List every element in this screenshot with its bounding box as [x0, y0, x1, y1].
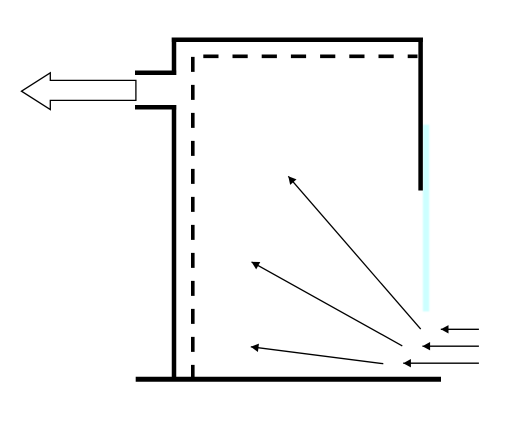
inlet arrow middle	[422, 345, 479, 347]
spray arrow upper	[288, 176, 420, 329]
spray arrow lower	[251, 347, 383, 364]
chamber top wall	[172, 37, 423, 42]
chamber floor	[136, 377, 441, 382]
cyan spray zone line	[423, 125, 429, 312]
dashed liner vertical	[191, 57, 195, 377]
inlet arrow upper	[441, 328, 479, 330]
outlet block arrow	[22, 73, 136, 110]
chamber right wall	[418, 38, 423, 191]
chamber left wall lower segment	[172, 105, 177, 379]
spray arrow middle	[252, 262, 403, 346]
chamber left wall upper segment	[172, 38, 177, 75]
dashed liner horizontal	[203, 54, 417, 58]
outlet duct upper wall	[135, 70, 176, 75]
inlet arrow lower	[403, 362, 479, 364]
outlet duct lower wall	[135, 105, 176, 110]
